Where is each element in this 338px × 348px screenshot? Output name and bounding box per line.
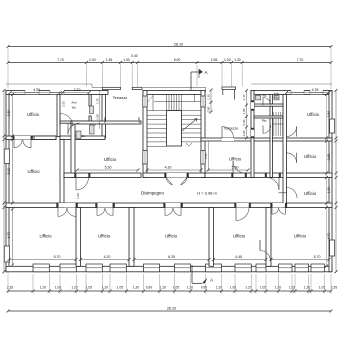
window right wall lower bbox=[330, 240, 335, 256]
dim 5.30 office TC bbox=[77, 169, 138, 171]
svg-text:0.90: 0.90 bbox=[201, 286, 207, 290]
svg-text:5.70: 5.70 bbox=[314, 255, 321, 259]
svg-text:5.30: 5.30 bbox=[232, 165, 239, 169]
dim 5.30 room RC bbox=[208, 169, 248, 171]
door office RT2 bbox=[287, 153, 297, 163]
svg-text:Ufficio: Ufficio bbox=[233, 234, 246, 239]
stair central well bbox=[167, 111, 182, 146]
wall B4-B5 bbox=[266, 208, 271, 267]
svg-text:1.20: 1.20 bbox=[207, 94, 211, 100]
svg-text:28.10: 28.10 bbox=[174, 42, 183, 46]
svg-text:5.30: 5.30 bbox=[105, 165, 112, 169]
svg-text:2.20: 2.20 bbox=[74, 88, 81, 92]
block ladder hatch bbox=[273, 112, 275, 136]
wall top of office TC bbox=[71, 121, 141, 124]
dim 4.70 left vertical bbox=[12, 209, 14, 265]
wall left block right vertical bbox=[102, 94, 106, 138]
parapet right terrace bbox=[222, 87, 236, 89]
block divider wall horizontal bbox=[254, 104, 283, 106]
door terrace to room RC in terrace bottom wall bbox=[222, 138, 234, 141]
fixtures shaft bbox=[90, 106, 94, 114]
svg-text:7.70: 7.70 bbox=[297, 58, 304, 62]
svg-text:1.90: 1.90 bbox=[327, 187, 331, 194]
svg-text:1.05: 1.05 bbox=[117, 286, 123, 290]
stair double door to corridor bbox=[166, 173, 187, 178]
block right wing left wall bbox=[251, 90, 254, 177]
svg-text:3.90: 3.90 bbox=[327, 111, 331, 118]
svg-text:Ufficio: Ufficio bbox=[304, 154, 317, 159]
eaves line top left wing bbox=[6, 83, 92, 85]
wall B3-B4 bbox=[209, 208, 214, 267]
wall right of office TL1 bbox=[57, 94, 60, 136]
block right wing right wall bbox=[283, 94, 287, 207]
dim 3.90 left vertical bbox=[12, 94, 14, 136]
stair outer walls bbox=[143, 90, 205, 94]
door jambs corridor doors bbox=[57, 203, 59, 208]
outer wall top right wing bbox=[251, 90, 332, 94]
svg-text:Ufficio: Ufficio bbox=[98, 234, 111, 239]
svg-text:Terrazzo: Terrazzo bbox=[113, 96, 128, 100]
section marker A top bbox=[190, 72, 192, 90]
bottom offices interior dims bbox=[9, 259, 76, 261]
block left wall door upper bbox=[251, 102, 254, 109]
svg-text:1.90: 1.90 bbox=[76, 193, 80, 199]
window left wall upper bbox=[4, 149, 9, 164]
dim 5.20 left vertical bbox=[12, 140, 14, 204]
stair upper flight treads bbox=[166, 94, 168, 110]
svg-text:Wc: Wc bbox=[274, 96, 279, 100]
dims terrace left column bbox=[99, 91, 101, 129]
wall below wc bbox=[60, 136, 105, 140]
svg-text:Ufficio: Ufficio bbox=[27, 169, 40, 174]
wall bottom of left block bbox=[6, 136, 56, 140]
door jambs corridor top wall bbox=[75, 173, 77, 178]
door anti wc to wc bbox=[68, 123, 80, 135]
svg-text:1.05: 1.05 bbox=[230, 286, 236, 290]
svg-text:6.25: 6.25 bbox=[168, 255, 175, 259]
door office TC bbox=[76, 178, 89, 191]
door office RT1 bbox=[287, 127, 297, 137]
wall left of office TC bbox=[71, 121, 75, 178]
svg-text:A: A bbox=[210, 278, 213, 283]
stair treads left flight bbox=[147, 114, 167, 116]
svg-text:0.90: 0.90 bbox=[242, 119, 246, 125]
svg-text:4.35: 4.35 bbox=[33, 88, 40, 92]
overall top dimension line 28.10 bbox=[8, 46, 331, 48]
block dims column bbox=[246, 90, 248, 138]
svg-text:1.05: 1.05 bbox=[55, 286, 61, 290]
svg-text:1.75: 1.75 bbox=[95, 98, 99, 104]
svg-text:1.20: 1.20 bbox=[71, 286, 77, 290]
far left dimension line bbox=[3, 90, 5, 271]
svg-text:1.05: 1.05 bbox=[86, 286, 92, 290]
svg-text:0.90: 0.90 bbox=[146, 286, 152, 290]
svg-text:4.45: 4.45 bbox=[235, 255, 242, 259]
stair window left lower bbox=[143, 151, 147, 165]
window left wall lower bbox=[4, 246, 9, 262]
svg-text:1.20: 1.20 bbox=[275, 286, 281, 290]
svg-text:4.30: 4.30 bbox=[165, 165, 172, 169]
double door office B5 bbox=[272, 203, 285, 208]
svg-text:28.10: 28.10 bbox=[167, 307, 176, 311]
svg-text:Ufficio: Ufficio bbox=[307, 112, 320, 117]
svg-text:Ufficio: Ufficio bbox=[294, 234, 307, 239]
corridor top wall right section bbox=[205, 173, 332, 178]
wall right of office TL2 bbox=[60, 140, 64, 208]
svg-text:7.70: 7.70 bbox=[57, 58, 64, 62]
outer wall top left wing bbox=[6, 90, 108, 94]
svg-text:0.90: 0.90 bbox=[207, 106, 211, 112]
section marker A bottom bbox=[191, 265, 193, 283]
bottom dimension line segments bbox=[8, 290, 331, 292]
far right dimension line bbox=[335, 90, 337, 271]
stair direction arrow bbox=[182, 119, 197, 132]
door shaft bbox=[91, 124, 100, 133]
double door office TL1 bbox=[14, 136, 31, 140]
stair interior width dim 4.30 bbox=[147, 169, 201, 171]
double door office B3 bbox=[165, 203, 181, 208]
svg-text:2.35: 2.35 bbox=[204, 153, 208, 159]
svg-text:1.30: 1.30 bbox=[234, 58, 241, 62]
svg-text:3.90: 3.90 bbox=[7, 110, 11, 117]
door corridor to alcove bbox=[267, 178, 280, 191]
svg-text:1.05: 1.05 bbox=[260, 286, 266, 290]
svg-text:Wc: Wc bbox=[72, 106, 77, 110]
outer wall left bbox=[6, 90, 9, 271]
svg-text:1.20: 1.20 bbox=[304, 286, 310, 290]
svg-text:2.35: 2.35 bbox=[331, 286, 337, 290]
svg-text:1.00: 1.00 bbox=[224, 58, 231, 62]
svg-text:1.00: 1.00 bbox=[242, 108, 246, 114]
svg-text:5.00: 5.00 bbox=[174, 58, 181, 62]
wall B2-B3 bbox=[129, 208, 134, 267]
svg-text:Disimpegno: Disimpegno bbox=[141, 191, 164, 196]
block left wall door lower bbox=[251, 130, 254, 137]
dim 2.35 room RC vertical bbox=[208, 141, 210, 171]
svg-text:Wc: Wc bbox=[262, 94, 267, 98]
double door office B2 bbox=[97, 203, 113, 208]
block door rip bbox=[263, 125, 271, 133]
svg-text:1.20: 1.20 bbox=[245, 286, 251, 290]
svg-text:4.70: 4.70 bbox=[7, 232, 11, 239]
windows top wall bbox=[25, 90, 39, 95]
door jambs left block bbox=[13, 136, 15, 140]
stair window right upper bbox=[201, 96, 205, 107]
svg-text:1.55: 1.55 bbox=[211, 58, 218, 62]
block divider wall second bbox=[254, 116, 283, 118]
bottom extension lines bbox=[32, 274, 34, 294]
outer wall bottom bbox=[6, 266, 332, 272]
svg-text:2.40: 2.40 bbox=[137, 117, 141, 123]
wall anti-wc wc divider bbox=[60, 121, 89, 123]
svg-text:1.20: 1.20 bbox=[102, 286, 108, 290]
block inner vertical wall bbox=[270, 94, 272, 177]
svg-text:H = 3.98 m: H = 3.98 m bbox=[197, 191, 217, 196]
door office B4 bbox=[236, 203, 249, 208]
corridor top wall left section bbox=[64, 173, 141, 178]
parapet left terrace piece 1 bbox=[102, 87, 120, 89]
overall bottom dimension line 28.10 bbox=[8, 310, 331, 312]
block fixtures bbox=[256, 95, 261, 100]
svg-text:5.70: 5.70 bbox=[54, 255, 61, 259]
svg-text:Ufficio: Ufficio bbox=[165, 234, 178, 239]
svg-text:Anti: Anti bbox=[71, 101, 77, 105]
stair eaves line bbox=[143, 86, 206, 88]
right vertical dims interior bbox=[326, 94, 328, 266]
svg-text:1.05: 1.05 bbox=[173, 286, 179, 290]
svg-text:1.47: 1.47 bbox=[242, 94, 246, 100]
svg-text:A: A bbox=[205, 70, 208, 75]
stair window right lower bbox=[201, 151, 205, 165]
top extension lines bbox=[85, 65, 87, 87]
terrace right bottom wall bbox=[201, 138, 332, 141]
svg-text:Ufficio: Ufficio bbox=[39, 234, 52, 239]
corridor bottom wall bbox=[6, 203, 332, 208]
svg-text:Ufficio: Ufficio bbox=[304, 191, 317, 196]
svg-text:0.55: 0.55 bbox=[103, 117, 107, 123]
svg-text:1.20: 1.20 bbox=[160, 286, 166, 290]
svg-text:1.20: 1.20 bbox=[133, 286, 139, 290]
svg-text:1.00: 1.00 bbox=[242, 130, 246, 136]
svg-text:Ufficio: Ufficio bbox=[229, 157, 242, 162]
window right wall upper bbox=[330, 119, 335, 133]
stair window left upper bbox=[143, 96, 147, 107]
stair upper landing lines bbox=[154, 101, 201, 103]
svg-text:1.00: 1.00 bbox=[89, 58, 96, 62]
svg-text:Wc: Wc bbox=[81, 134, 86, 138]
block door wc bbox=[263, 98, 271, 106]
door bottom wall external bbox=[259, 240, 261, 251]
svg-text:1.20: 1.20 bbox=[40, 286, 46, 290]
parapet left terrace piece 2 bbox=[132, 87, 142, 89]
windows bottom wall bbox=[33, 264, 49, 272]
door terrace room RC bbox=[233, 161, 245, 173]
svg-text:Ufficio: Ufficio bbox=[27, 112, 40, 117]
fixture wc left bbox=[76, 131, 81, 139]
svg-text:1.20: 1.20 bbox=[187, 286, 193, 290]
svg-text:1.00: 1.00 bbox=[123, 58, 130, 62]
outer wall right bbox=[329, 90, 332, 271]
svg-text:1.00: 1.00 bbox=[95, 114, 99, 120]
interior dim 4.25 right wing bbox=[287, 92, 330, 94]
svg-text:2.65: 2.65 bbox=[327, 154, 331, 161]
svg-text:0.40: 0.40 bbox=[131, 54, 138, 58]
door office RT3 bbox=[287, 188, 298, 199]
door TL1 to anti wc bbox=[60, 114, 73, 127]
svg-text:2.55: 2.55 bbox=[62, 101, 66, 107]
svg-text:Ufficio: Ufficio bbox=[104, 157, 117, 162]
svg-text:1.45: 1.45 bbox=[106, 58, 113, 62]
double door office B1 bbox=[58, 203, 76, 208]
svg-text:Terrazzo: Terrazzo bbox=[224, 127, 239, 131]
dim 2.20 anti wc bbox=[63, 92, 90, 94]
svg-text:5.20: 5.20 bbox=[7, 168, 11, 175]
wall B1-B2 bbox=[76, 208, 81, 267]
stair treads right flight bbox=[182, 114, 202, 116]
svg-text:4.20: 4.20 bbox=[104, 255, 111, 259]
stair right small dims 1.20 0.90 bbox=[210, 90, 212, 112]
wall left block middle vertical bbox=[89, 94, 91, 106]
dim 4.35 office TL1 bbox=[10, 92, 60, 94]
svg-text:4.25: 4.25 bbox=[312, 88, 319, 92]
stair bottom wall bbox=[143, 173, 205, 178]
top dimension line segments bbox=[8, 62, 331, 64]
svg-text:Rip.: Rip. bbox=[262, 119, 268, 123]
svg-text:4.70: 4.70 bbox=[327, 233, 331, 240]
eaves line top right wing bbox=[251, 83, 332, 85]
